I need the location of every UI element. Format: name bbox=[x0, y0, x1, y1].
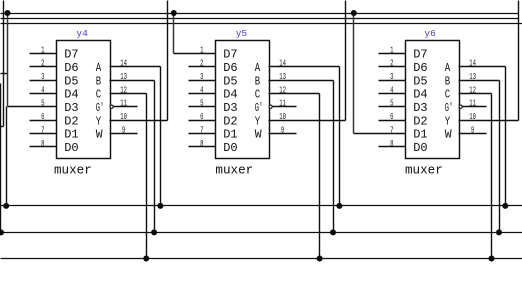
svg-text:Y: Y bbox=[96, 114, 101, 128]
wire y6 pin 10 output Y bbox=[459, 120, 519, 122]
wire bus line 2 bbox=[1, 18, 519, 20]
svg-text:9: 9 bbox=[471, 126, 474, 136]
svg-text:D0: D0 bbox=[223, 141, 237, 155]
svg-text:D3: D3 bbox=[64, 101, 78, 115]
svg-text:A: A bbox=[96, 61, 102, 75]
wire left-edge stub into bus column bbox=[1, 73, 8, 75]
svg-text:D4: D4 bbox=[413, 88, 427, 102]
wire y5 bus-tap vertical bbox=[173, 14, 175, 54]
svg-text:6: 6 bbox=[200, 113, 203, 123]
wire y5 pin 14 output A bbox=[269, 66, 340, 68]
wire y4 pin 7 input stub bbox=[30, 133, 57, 135]
wire left-edge corner segment bbox=[1, 126, 4, 128]
wire y4 pin 5 input from bus tap bbox=[8, 106, 57, 108]
svg-text:7: 7 bbox=[390, 126, 393, 136]
wire y4 pin 3 input stub bbox=[30, 80, 57, 82]
svg-text:13: 13 bbox=[120, 73, 127, 83]
wire y4 bus-tap vertical bbox=[7, 14, 9, 107]
svg-text:9: 9 bbox=[281, 126, 284, 136]
junction dot y4 A on H1 bbox=[157, 203, 163, 209]
junction dot y6 B on H2 bbox=[496, 229, 502, 235]
wire y6 pin 14 output A bbox=[459, 66, 506, 68]
svg-text:2: 2 bbox=[200, 60, 203, 70]
svg-text:D6: D6 bbox=[223, 61, 237, 75]
junction dot left vertical / H1 bbox=[3, 203, 9, 209]
inverter bubble y5 pin 11 G-prime bbox=[269, 105, 272, 108]
wire y5 pin 11 G-prime stub bbox=[273, 106, 297, 108]
svg-text:12: 12 bbox=[469, 86, 476, 96]
wire left-edge vertical to H2 bbox=[0, 84, 2, 233]
wire y6 bus-tap vertical bbox=[353, 14, 355, 134]
wire y6 pin 7 input from bus tap bbox=[354, 133, 406, 135]
wire bottom net H2 bbox=[1, 232, 522, 234]
wire y4 pin 9 output W stub bbox=[110, 133, 138, 135]
wire bottom net H3 bbox=[1, 258, 522, 260]
svg-text:12: 12 bbox=[279, 86, 286, 96]
wire y5 pin 1 input from bus tap bbox=[174, 53, 216, 55]
junction dot y6 tap on bus 1 bbox=[351, 10, 357, 16]
svg-text:W: W bbox=[445, 128, 453, 142]
svg-text:C: C bbox=[445, 88, 450, 102]
wire y6 Y riser up to top edge bbox=[518, 1, 520, 121]
wire y4 pin 11 G-prime stub bbox=[114, 106, 138, 108]
wire y6 pin 13 output B bbox=[459, 80, 500, 82]
svg-text:y5: y5 bbox=[236, 28, 248, 39]
wire y5 C riser down to H3 bbox=[319, 94, 321, 259]
svg-text:D2: D2 bbox=[223, 114, 237, 128]
wire y4 Y riser up to top edge bbox=[167, 1, 169, 121]
svg-text:B: B bbox=[96, 74, 101, 88]
wire y4 B riser down to H2 bbox=[154, 81, 156, 233]
svg-text:D4: D4 bbox=[64, 88, 78, 102]
junction dot y4 tap on bus 1 bbox=[5, 10, 11, 16]
svg-text:W: W bbox=[255, 128, 263, 142]
wire y6 B riser down to H2 bbox=[499, 81, 501, 233]
svg-text:8: 8 bbox=[390, 140, 393, 150]
svg-text:3: 3 bbox=[41, 73, 44, 83]
svg-text:2: 2 bbox=[41, 60, 44, 70]
svg-text:10: 10 bbox=[120, 113, 127, 123]
svg-text:A: A bbox=[255, 61, 261, 75]
svg-text:W: W bbox=[96, 128, 104, 142]
junction dot y5 B on H2 bbox=[330, 229, 336, 235]
wire bus line 3 bbox=[1, 23, 522, 25]
wire y4 A riser down to H1 bbox=[160, 67, 162, 206]
wire y4 pin 2 input stub bbox=[30, 66, 57, 68]
wire left-edge vertical to H1 bbox=[6, 107, 8, 206]
svg-text:D7: D7 bbox=[413, 48, 427, 62]
svg-text:D7: D7 bbox=[223, 48, 237, 62]
svg-text:7: 7 bbox=[200, 126, 203, 136]
wire y6 pin 4 input stub bbox=[379, 93, 406, 95]
svg-text:D3: D3 bbox=[413, 101, 427, 115]
wire y5 pin 13 output B bbox=[269, 80, 334, 82]
wire y5 B riser down to H2 bbox=[333, 81, 335, 233]
svg-text:5: 5 bbox=[390, 100, 393, 110]
svg-text:14: 14 bbox=[279, 60, 286, 70]
svg-text:14: 14 bbox=[469, 60, 476, 70]
svg-text:D5: D5 bbox=[223, 74, 237, 88]
wire y6 pin 11 G-prime stub bbox=[463, 106, 487, 108]
wire y5 A riser down to H1 bbox=[339, 67, 341, 206]
op-amp y6 muxer body (IC box) bbox=[406, 41, 460, 159]
wire y4 pin 8 input stub bbox=[30, 146, 57, 148]
wire y4 C riser down to H3 bbox=[146, 94, 148, 259]
op-amp y4 muxer body (IC box) bbox=[57, 41, 111, 159]
svg-text:A: A bbox=[445, 61, 451, 75]
wire y6 pin 1 input stub bbox=[379, 53, 406, 55]
wire y6 pin 6 input stub bbox=[379, 120, 406, 122]
wire y5 pin 5 input stub bbox=[189, 106, 216, 108]
wire y6 A riser down to H1 bbox=[505, 67, 507, 206]
wire y6 pin 3 input stub bbox=[379, 80, 406, 82]
svg-text:D1: D1 bbox=[413, 128, 427, 142]
svg-text:4: 4 bbox=[390, 86, 394, 96]
svg-text:4: 4 bbox=[41, 86, 45, 96]
junction dot y5 C on H3 bbox=[317, 256, 323, 262]
svg-text:Y: Y bbox=[445, 114, 450, 128]
op-amp y5 muxer body (IC box) bbox=[216, 41, 270, 159]
svg-text:D6: D6 bbox=[413, 61, 427, 75]
svg-text:G': G' bbox=[96, 101, 104, 115]
svg-text:D5: D5 bbox=[64, 74, 78, 88]
junction dot left vertical / H2 bbox=[0, 229, 4, 235]
wire y6 pin 5 input stub bbox=[379, 106, 406, 108]
wire bus line 1 (top horizontal net) bbox=[1, 13, 519, 15]
svg-text:D6: D6 bbox=[64, 61, 78, 75]
svg-text:5: 5 bbox=[41, 100, 44, 110]
svg-text:8: 8 bbox=[200, 140, 203, 150]
svg-text:3: 3 bbox=[390, 73, 393, 83]
svg-text:D3: D3 bbox=[223, 101, 237, 115]
svg-text:6: 6 bbox=[390, 113, 393, 123]
svg-text:C: C bbox=[96, 88, 101, 102]
junction dot y6 C on H3 bbox=[489, 256, 495, 262]
svg-text:3: 3 bbox=[200, 73, 203, 83]
svg-text:D1: D1 bbox=[64, 128, 78, 142]
svg-text:1: 1 bbox=[390, 46, 394, 56]
svg-text:10: 10 bbox=[279, 113, 286, 123]
svg-text:D5: D5 bbox=[413, 74, 427, 88]
svg-text:11: 11 bbox=[279, 100, 286, 110]
svg-text:4: 4 bbox=[200, 86, 204, 96]
wire y5 pin 10 output Y bbox=[269, 120, 346, 122]
inverter bubble y4 pin 11 G-prime bbox=[110, 105, 113, 108]
svg-text:D2: D2 bbox=[64, 114, 78, 128]
svg-text:9: 9 bbox=[122, 126, 125, 136]
wire y6 C riser down to H3 bbox=[491, 94, 493, 259]
svg-text:1: 1 bbox=[41, 46, 45, 56]
svg-text:muxer: muxer bbox=[54, 164, 92, 178]
svg-text:D4: D4 bbox=[223, 88, 237, 102]
wire y5 Y riser up to top edge bbox=[345, 1, 347, 121]
wire y5 pin 6 input stub bbox=[189, 120, 216, 122]
wire y5 pin 7 input stub bbox=[189, 133, 216, 135]
junction dot y4 B on H2 bbox=[151, 229, 157, 235]
svg-text:12: 12 bbox=[120, 86, 127, 96]
svg-text:1: 1 bbox=[200, 46, 204, 56]
svg-text:G': G' bbox=[255, 101, 263, 115]
svg-text:D1: D1 bbox=[223, 128, 237, 142]
wire y4 pin 12 output C bbox=[110, 93, 147, 95]
svg-text:B: B bbox=[445, 74, 450, 88]
svg-text:D0: D0 bbox=[64, 141, 78, 155]
wire y4 pin 13 output B bbox=[110, 80, 155, 82]
svg-text:muxer: muxer bbox=[405, 164, 443, 178]
wire y5 pin 12 output C bbox=[269, 93, 320, 95]
wire y5 pin 9 output W stub bbox=[269, 133, 297, 135]
svg-text:y6: y6 bbox=[424, 28, 436, 39]
wire y6 pin 8 input stub bbox=[379, 146, 406, 148]
wire y4 pin 1 input stub bbox=[30, 53, 57, 55]
svg-text:7: 7 bbox=[41, 126, 44, 136]
wire y6 pin 12 output C bbox=[459, 93, 492, 95]
svg-text:2: 2 bbox=[390, 60, 393, 70]
svg-text:13: 13 bbox=[469, 73, 476, 83]
svg-text:6: 6 bbox=[41, 113, 44, 123]
wire y4 pin 10 output Y bbox=[110, 120, 168, 122]
wire y4 pin 6 input stub bbox=[30, 120, 57, 122]
svg-text:C: C bbox=[255, 88, 260, 102]
wire y5 pin 2 input stub bbox=[189, 66, 216, 68]
wire y5 pin 8 input stub bbox=[189, 146, 216, 148]
junction dot y5 tap on bus 1 bbox=[171, 10, 177, 16]
svg-text:D7: D7 bbox=[64, 48, 78, 62]
wire left-edge vertical (clipped riser) bbox=[3, 1, 5, 127]
wire y5 pin 4 input stub bbox=[189, 93, 216, 95]
svg-text:11: 11 bbox=[120, 100, 127, 110]
junction dot y5 A on H1 bbox=[336, 203, 342, 209]
svg-text:G': G' bbox=[445, 101, 453, 115]
svg-text:5: 5 bbox=[200, 100, 203, 110]
junction dot y6 A on H1 bbox=[502, 203, 508, 209]
svg-text:13: 13 bbox=[279, 73, 286, 83]
inverter bubble y6 pin 11 G-prime bbox=[459, 105, 462, 108]
svg-text:10: 10 bbox=[469, 113, 476, 123]
svg-text:D0: D0 bbox=[413, 141, 427, 155]
svg-text:B: B bbox=[255, 74, 260, 88]
svg-text:8: 8 bbox=[41, 140, 44, 150]
wire y6 pin 2 input stub bbox=[379, 66, 406, 68]
wire y4 pin 4 input stub bbox=[30, 93, 57, 95]
svg-text:14: 14 bbox=[120, 60, 127, 70]
svg-text:11: 11 bbox=[469, 100, 476, 110]
wire y4 pin 14 output A bbox=[110, 66, 161, 68]
svg-text:y4: y4 bbox=[76, 28, 88, 39]
svg-text:Y: Y bbox=[255, 114, 260, 128]
wire y5 pin 3 input stub bbox=[189, 80, 216, 82]
svg-text:D2: D2 bbox=[413, 114, 427, 128]
wire y6 pin 9 output W stub bbox=[459, 133, 487, 135]
junction dot y4 C on H3 bbox=[143, 256, 149, 262]
wire bottom net H1 bbox=[1, 205, 522, 207]
svg-text:muxer: muxer bbox=[215, 164, 253, 178]
